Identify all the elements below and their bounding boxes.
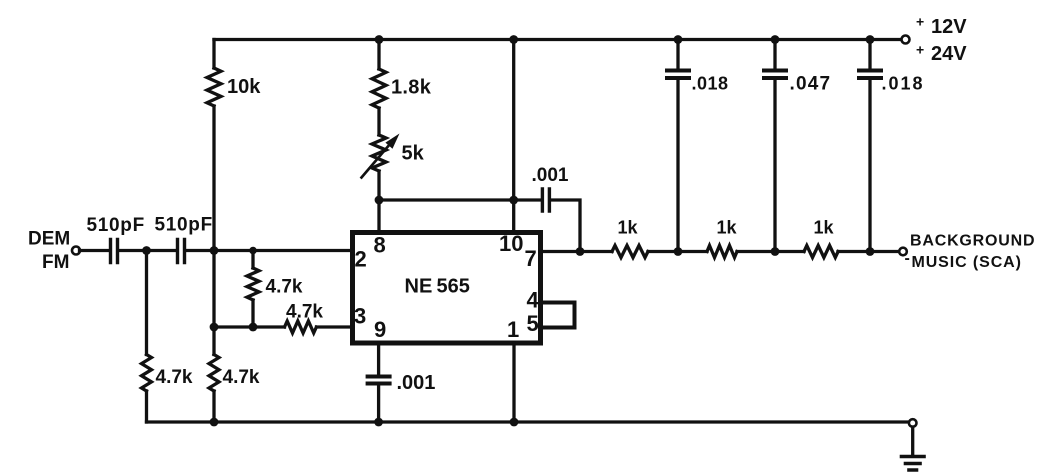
svg-text:4.7k: 4.7k [266, 277, 303, 298]
label 1k R2 [717, 218, 738, 238]
terminal +V supply [902, 36, 910, 44]
capacitor .018 C5 [859, 71, 881, 79]
wire pin3 bias vertical x=253 [251, 251, 254, 328]
svg-text:510pF: 510pF [155, 215, 213, 236]
wire ground stub [911, 427, 914, 454]
junction top bus at VCO branch [375, 35, 384, 44]
svg-text:1: 1 [507, 317, 519, 342]
wire ground bus y=422 [147, 420, 909, 423]
pin 9 label [374, 317, 386, 342]
pin 8 label [374, 233, 386, 258]
ground symbol [902, 457, 925, 471]
svg-text:510pF: 510pF [87, 215, 145, 236]
svg-text:DEM: DEM [28, 229, 70, 250]
label .018 second [882, 74, 925, 94]
svg-text:4.7k: 4.7k [156, 367, 193, 388]
svg-text:24V: 24V [931, 43, 967, 65]
junction x253 on pin3 line [249, 323, 258, 332]
pin 4 label [527, 288, 540, 313]
pin 10 label [499, 231, 523, 256]
label 510pF C2 [155, 215, 213, 236]
capacitor 510pF C1 [111, 240, 118, 263]
label NE565 [405, 276, 470, 298]
wire bypass branch x=870 [868, 40, 871, 252]
junction top bus x=870 [866, 35, 875, 44]
wire input line (pin 2) [80, 249, 353, 252]
wire pin8 horizontal line y=200 [379, 198, 541, 201]
resistor 1.8k [372, 69, 386, 108]
pin 5 label [527, 311, 539, 336]
svg-text:1k: 1k [717, 218, 738, 238]
svg-text:+: + [916, 42, 924, 58]
label 4.7k lower-left [156, 367, 193, 388]
resistor 4.7k lower-right [209, 355, 219, 392]
svg-text:BACKGROUND: BACKGROUND [910, 233, 1035, 250]
label BACKGROUND [910, 233, 1035, 250]
wire +V supply bus (top) [214, 38, 902, 41]
label .001 bottom [397, 372, 436, 394]
pin 3 label [354, 304, 366, 329]
capacitor .001 loop filter (horizontal) [542, 189, 549, 211]
svg-text:4.7k: 4.7k [223, 367, 260, 388]
capacitor .047 C4 [764, 71, 786, 79]
resistor 10k [207, 68, 221, 106]
label DEM [28, 229, 70, 250]
wire left divider branch x=146.5 [145, 251, 148, 423]
wire pin4-pin5 jumper loop [541, 303, 575, 328]
label 5k [402, 143, 425, 165]
label +12V [916, 14, 967, 39]
capacitor 510pF C2 [178, 240, 185, 263]
wire bypass branch x=678 [676, 40, 679, 252]
svg-text:8: 8 [374, 233, 386, 258]
svg-text:1k: 1k [618, 218, 639, 238]
wire VCO timing branch vertical x=379 [377, 40, 380, 231]
junction input line x=214 [210, 246, 219, 255]
label MUSIC (SCA) [905, 250, 1022, 271]
label .001 top [532, 165, 569, 186]
junction input line x=147 [142, 246, 151, 255]
junction x253 on input line [249, 247, 257, 255]
resistor 1k R3 [804, 246, 838, 258]
label .047 [790, 74, 832, 95]
junction ground bus x=514 [510, 418, 519, 427]
svg-text:-: - [905, 250, 910, 267]
wire pin7 output line y=251.5 [541, 250, 900, 253]
junction output line x=678 [674, 247, 683, 256]
label FM [42, 252, 69, 273]
wire pin9 vertical below IC [377, 343, 380, 422]
resistor 4.7k lower-left [142, 355, 152, 392]
pin 2 label [355, 247, 367, 272]
svg-text:.001: .001 [397, 372, 436, 394]
svg-text:5: 5 [527, 311, 539, 336]
label 1k R3 [814, 218, 835, 238]
capacitor .018 C3 [667, 71, 689, 79]
svg-text:FM: FM [42, 252, 69, 273]
wire bypass branch x=775 [773, 40, 776, 252]
junction output line x=775 [771, 247, 780, 256]
svg-text:1k: 1k [814, 218, 835, 238]
pin 7 label [525, 246, 537, 271]
junction x214 on pin3 line [210, 323, 219, 332]
junction pin10 branch at y=200 [509, 196, 518, 205]
label 4.7k series [286, 302, 323, 323]
svg-text:+: + [916, 14, 924, 30]
terminal DEM FM input [72, 247, 80, 255]
label 4.7k upper [266, 277, 303, 298]
terminal ground [909, 419, 917, 427]
svg-text:MUSIC (SCA): MUSIC (SCA) [912, 254, 1022, 271]
label +24V [916, 42, 967, 66]
wire from .001 cap down to pin7 output [551, 200, 580, 252]
junction pin8 node [375, 196, 384, 205]
svg-text:3: 3 [354, 304, 366, 329]
capacitor .001 at pin 9 [368, 377, 390, 384]
svg-text:10: 10 [499, 231, 523, 256]
pin 1 label [507, 317, 519, 342]
label 1.8k [391, 77, 432, 99]
svg-text:.001: .001 [532, 165, 569, 186]
wire pin1 vertical below IC [512, 343, 515, 422]
label 4.7k lower-right [223, 367, 260, 388]
svg-text:5k: 5k [402, 143, 425, 165]
resistor 4.7k series to pin 3 [285, 321, 317, 333]
resistor 1k R2 [707, 246, 737, 258]
terminal BACKGROUND MUSIC output [899, 248, 907, 256]
svg-text:7: 7 [525, 246, 537, 271]
potentiometer 5k [362, 134, 400, 178]
svg-text:NE: NE [405, 276, 433, 298]
junction output line at cap branch [576, 247, 585, 256]
resistor 1k R1 [612, 246, 648, 258]
wire pin 3 line y=327 [214, 325, 352, 328]
junction output line x=870 [866, 247, 875, 256]
resistor 4.7k upper vertical [247, 268, 259, 300]
wire left bias branch vertical x=214 [212, 40, 215, 423]
IC op-amp/PLL NE565 U1 box [353, 233, 541, 344]
wire pin10 V+ vertical x=513.7 [512, 40, 515, 231]
junction top bus x=775 [771, 35, 780, 44]
junction ground bus x=214 [210, 418, 219, 427]
svg-text:4: 4 [527, 288, 540, 313]
svg-text:1.8k: 1.8k [391, 77, 432, 99]
junction top bus at pin10 branch [509, 35, 518, 44]
junction top bus x=678 [674, 35, 683, 44]
junction ground bus x=379 [374, 418, 383, 427]
svg-text:9: 9 [374, 317, 386, 342]
svg-text:10k: 10k [227, 76, 261, 98]
svg-text:4.7k: 4.7k [286, 302, 323, 323]
svg-text:565: 565 [437, 276, 470, 298]
label 510pF C1 [87, 215, 145, 236]
label 10k [227, 76, 261, 98]
svg-text:.018: .018 [692, 74, 729, 94]
svg-text:2: 2 [355, 247, 367, 272]
label 1k R1 [618, 218, 639, 238]
svg-text:.018: .018 [882, 74, 925, 94]
label .018 first [692, 74, 729, 94]
svg-text:.047: .047 [790, 74, 832, 95]
svg-text:12V: 12V [931, 16, 967, 38]
